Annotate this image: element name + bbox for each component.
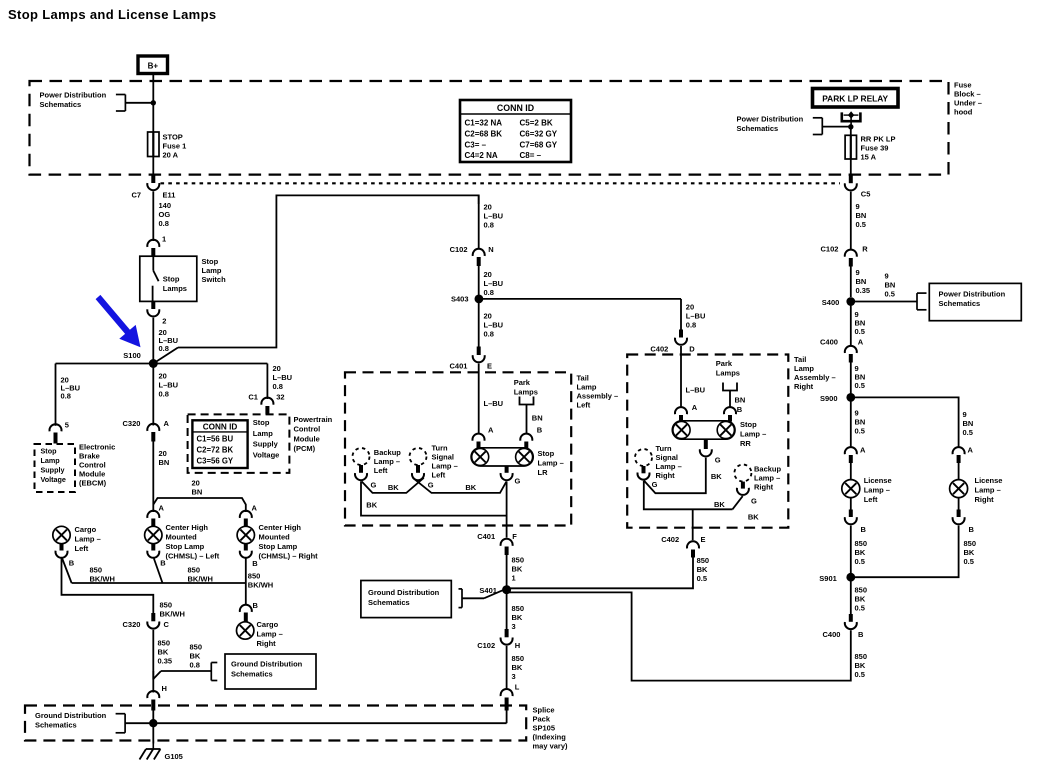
stop RR pin G terminal — [704, 440, 708, 449]
svg-text:850: 850 — [190, 643, 203, 652]
svg-text:Schematics: Schematics — [737, 124, 779, 133]
svg-text:0.5: 0.5 — [964, 557, 974, 566]
svg-text:Left: Left — [75, 544, 89, 553]
svg-text:Pack: Pack — [533, 715, 551, 724]
wire C320C down — [152, 630, 154, 680]
connector C102 pin H — [501, 638, 513, 645]
svg-text:BK: BK — [964, 548, 975, 557]
wire S100 to PCM branch — [153, 363, 267, 365]
svg-text:B: B — [737, 405, 743, 414]
connector pin A into stop RR — [675, 407, 687, 414]
wire E11 140 OG — [152, 191, 154, 241]
wire turn right ground bus — [644, 481, 733, 510]
lamp stop RR (dual filament) — [672, 421, 735, 439]
svg-text:Module: Module — [79, 470, 105, 479]
svg-text:BK: BK — [855, 548, 866, 557]
svg-text:0.8: 0.8 — [159, 219, 169, 228]
wire into splice pack — [152, 710, 154, 744]
wire fuse to C7 — [152, 157, 154, 176]
svg-text:9: 9 — [885, 272, 889, 281]
lamp backup left (dashed) — [353, 448, 370, 465]
svg-text:Fuse: Fuse — [954, 81, 972, 90]
svg-text:L–BU: L–BU — [686, 312, 706, 321]
node S901 splice — [846, 573, 855, 582]
svg-text:0.5: 0.5 — [855, 557, 865, 566]
svg-text:Fuse 39: Fuse 39 — [861, 144, 889, 153]
svg-text:B: B — [969, 525, 975, 534]
svg-text:850: 850 — [512, 654, 525, 663]
svg-text:0.8: 0.8 — [159, 390, 169, 399]
splice pack SP105 dashed box — [25, 706, 526, 741]
svg-text:Schematics: Schematics — [35, 721, 77, 730]
wire S900 to license right branch — [851, 397, 959, 447]
wire splice bus riser — [506, 710, 508, 723]
wire fuse 39 to C5 — [850, 159, 852, 176]
connector into CHMSL left — [147, 511, 159, 518]
svg-text:0.5: 0.5 — [963, 428, 973, 437]
backup right pin G terminal — [741, 482, 745, 489]
wire S403 branch to C402 D — [680, 299, 682, 330]
svg-text:Backup: Backup — [754, 465, 782, 474]
svg-text:0.8: 0.8 — [484, 221, 494, 230]
CHMSL right pin B terminal — [244, 544, 248, 551]
svg-text:BK: BK — [855, 661, 866, 670]
svg-text:Lamp –: Lamp – — [538, 459, 564, 468]
PCM CONN ID table — [192, 420, 247, 468]
svg-text:S403: S403 — [451, 294, 469, 303]
connector C102 pin H terminal — [505, 629, 509, 637]
wire S100 to EBCM branch (left) — [56, 363, 154, 365]
svg-text:RR PK LP: RR PK LP — [861, 135, 896, 144]
wire C400A to S900 — [850, 363, 852, 398]
svg-text:Powertrain: Powertrain — [294, 415, 333, 424]
svg-text:(CHMSL) – Right: (CHMSL) – Right — [259, 552, 319, 561]
connector splice pin L — [501, 689, 513, 696]
svg-text:Assembly –: Assembly – — [577, 392, 619, 401]
svg-text:1: 1 — [512, 574, 516, 583]
stop lamp switch box — [140, 256, 197, 301]
svg-text:Tail: Tail — [577, 374, 589, 383]
svg-text:BK: BK — [855, 595, 866, 604]
in-line harness dotted boundary — [161, 182, 841, 184]
svg-text:0.8: 0.8 — [686, 321, 696, 330]
svg-text:850: 850 — [158, 639, 171, 648]
tail lamp assembly left dashed box — [345, 372, 571, 525]
svg-text:9: 9 — [856, 268, 860, 277]
svg-text:Supply: Supply — [253, 440, 279, 449]
svg-text:BK/WH: BK/WH — [188, 575, 213, 584]
svg-text:0.5: 0.5 — [885, 290, 895, 299]
svg-text:Stop Lamp: Stop Lamp — [166, 542, 205, 551]
svg-text:A: A — [252, 504, 258, 513]
svg-text:0.8: 0.8 — [61, 392, 71, 401]
wire cargo-left to C320 C — [62, 559, 154, 614]
svg-text:L–BU: L–BU — [273, 373, 293, 382]
bracket to power distribution (top left) — [116, 95, 126, 112]
svg-text:C5=2 BK: C5=2 BK — [520, 119, 553, 128]
stop LR pin G terminal — [505, 466, 509, 473]
svg-text:A: A — [164, 419, 170, 428]
svg-text:15 A: 15 A — [861, 153, 877, 162]
svg-text:E: E — [701, 535, 706, 544]
svg-text:BN: BN — [856, 211, 867, 220]
battery B+ terminal — [138, 56, 168, 74]
svg-text:C400: C400 — [823, 630, 841, 639]
svg-text:BK: BK — [748, 513, 759, 522]
svg-text:BK: BK — [697, 565, 708, 574]
svg-text:C102: C102 — [450, 245, 468, 254]
wire stop RR G to turn right — [644, 458, 706, 494]
svg-text:850: 850 — [964, 539, 977, 548]
svg-text:850: 850 — [160, 601, 173, 610]
svg-text:0.8: 0.8 — [484, 288, 494, 297]
svg-text:0.35: 0.35 — [158, 657, 173, 666]
PCM dashed box — [188, 414, 290, 473]
svg-text:License: License — [975, 476, 1003, 485]
svg-text:Electronic: Electronic — [79, 443, 115, 452]
wire S403 to tail right branch — [479, 298, 681, 300]
svg-text:Right: Right — [794, 382, 814, 391]
svg-text:C400: C400 — [820, 338, 838, 347]
svg-text:BN: BN — [735, 396, 746, 405]
svg-text:9: 9 — [856, 202, 860, 211]
svg-text:G: G — [515, 477, 521, 486]
svg-text:C1: C1 — [248, 392, 258, 401]
wire backup right diagonal — [733, 496, 743, 509]
svg-text:N: N — [488, 245, 493, 254]
svg-text:850: 850 — [188, 566, 201, 575]
backup left pin G terminal — [359, 465, 363, 473]
wire park lamps to pin B (left) — [526, 405, 528, 434]
wire C401E into stop lamp LR — [478, 364, 480, 434]
svg-text:Lamp –: Lamp – — [975, 486, 1001, 495]
svg-text:Right: Right — [257, 639, 277, 648]
svg-text:STOP: STOP — [163, 133, 183, 142]
svg-text:2: 2 — [162, 317, 166, 326]
svg-text:CONN ID: CONN ID — [497, 103, 534, 113]
svg-text:BK/WH: BK/WH — [90, 575, 115, 584]
svg-text:G: G — [428, 481, 434, 490]
svg-text:G: G — [751, 497, 757, 506]
wire splice bus — [125, 722, 507, 724]
svg-text:A: A — [968, 446, 974, 455]
svg-text:C2=68 BK: C2=68 BK — [465, 130, 503, 139]
svg-text:L–BU: L–BU — [686, 386, 706, 395]
svg-text:BN: BN — [192, 488, 203, 497]
svg-text:C401: C401 — [477, 532, 495, 541]
svg-text:0.5: 0.5 — [855, 327, 865, 336]
svg-text:CONN ID: CONN ID — [203, 422, 238, 431]
connector pin B into stop RR — [724, 407, 736, 414]
svg-text:BK/WH: BK/WH — [248, 581, 273, 590]
node S401 splice — [502, 585, 511, 594]
svg-text:B+: B+ — [148, 62, 159, 71]
svg-text:20: 20 — [484, 203, 492, 212]
svg-text:850: 850 — [90, 566, 103, 575]
svg-text:C102: C102 — [477, 641, 495, 650]
wire S901 to C400 B — [850, 577, 852, 614]
connector pin 5 into EBCM — [50, 424, 62, 431]
svg-text:D: D — [689, 345, 695, 354]
PARK LP RELAY box — [813, 89, 899, 108]
svg-text:Right: Right — [656, 471, 676, 480]
connector C400 pin A — [845, 346, 857, 353]
wire S401 down to C102 H — [506, 590, 508, 630]
svg-text:BK: BK — [711, 472, 722, 481]
node S100 splice — [149, 359, 158, 368]
wire relay to RR PK LP fuse — [850, 127, 852, 136]
connector pin B into stop LR — [520, 434, 532, 441]
license left pin B terminal — [850, 498, 852, 510]
wire turn-left G to stop G — [413, 478, 507, 493]
svg-text:32: 32 — [276, 392, 284, 401]
svg-text:Ground Distribution: Ground Distribution — [35, 711, 107, 720]
svg-text:PARK LP RELAY: PARK LP RELAY — [822, 94, 888, 104]
node S400 splice — [846, 297, 855, 306]
svg-text:BN: BN — [885, 281, 896, 290]
wire to splice pack pin H — [152, 671, 154, 693]
connector into CHMSL right — [240, 511, 252, 518]
svg-text:B: B — [253, 601, 259, 610]
wire C401F to S401 — [506, 555, 508, 586]
svg-text:B: B — [858, 630, 864, 639]
svg-text:R: R — [862, 245, 868, 254]
svg-text:Mounted: Mounted — [259, 533, 291, 542]
svg-text:A: A — [858, 338, 864, 347]
svg-text:BN: BN — [856, 277, 867, 286]
lamp turn signal right (dashed) — [635, 449, 652, 466]
svg-text:Stop: Stop — [202, 257, 219, 266]
svg-text:Lamps: Lamps — [163, 284, 187, 293]
svg-text:140: 140 — [159, 201, 172, 210]
svg-text:C320: C320 — [123, 620, 141, 629]
svg-text:850: 850 — [512, 556, 525, 565]
svg-text:BK: BK — [366, 501, 377, 510]
svg-text:Ground Distribution: Ground Distribution — [231, 660, 303, 669]
svg-text:OG: OG — [159, 210, 171, 219]
lamp cargo right — [237, 622, 254, 639]
connector C5 terminal pin — [849, 175, 853, 183]
svg-text:Park: Park — [716, 359, 733, 368]
connector C1 pin 32 into PCM — [261, 398, 273, 405]
svg-text:C402: C402 — [661, 535, 679, 544]
svg-text:9: 9 — [963, 410, 967, 419]
svg-text:0.5: 0.5 — [855, 670, 865, 679]
svg-text:L–BU: L–BU — [484, 399, 504, 408]
tail lamp assembly right dashed box — [627, 355, 788, 528]
connector into license left — [845, 447, 857, 454]
svg-text:Switch: Switch — [202, 275, 227, 284]
svg-text:Schematics: Schematics — [939, 299, 981, 308]
svg-text:A: A — [488, 426, 494, 435]
svg-text:L–BU: L–BU — [484, 212, 504, 221]
svg-text:S100: S100 — [123, 351, 141, 360]
svg-text:B: B — [252, 559, 258, 568]
wire backup-left G to bus — [362, 478, 424, 493]
svg-text:0.5: 0.5 — [856, 220, 866, 229]
svg-text:Stop: Stop — [740, 420, 757, 429]
svg-text:Voltage: Voltage — [253, 450, 280, 459]
svg-text:9: 9 — [855, 409, 859, 418]
svg-text:Signal: Signal — [656, 453, 679, 462]
wire branch to ground distribution note — [153, 671, 161, 679]
lamp turn signal left (dashed) — [410, 448, 427, 465]
bracket to S401 note — [459, 589, 463, 608]
lamp cargo left — [53, 526, 70, 543]
svg-text:C401: C401 — [450, 362, 468, 371]
svg-text:C7=68 GY: C7=68 GY — [520, 141, 558, 150]
svg-text:C: C — [164, 620, 170, 629]
fuse block underhood dashed box — [30, 81, 949, 175]
svg-text:Lamp –: Lamp – — [432, 462, 458, 471]
svg-text:Lamps: Lamps — [716, 369, 740, 378]
svg-text:Stop: Stop — [163, 275, 180, 284]
svg-text:0.5: 0.5 — [697, 574, 707, 583]
svg-text:Schematics: Schematics — [231, 670, 273, 679]
svg-text:20: 20 — [159, 449, 167, 458]
connector C400 pin B terminal — [849, 614, 853, 622]
wire B+ to STOP fuse — [152, 74, 154, 133]
svg-text:Stop: Stop — [538, 449, 555, 458]
svg-text:C3=56 GY: C3=56 GY — [197, 456, 234, 465]
wire CHMSL-left diagonal to bus — [154, 559, 163, 584]
svg-text:C5: C5 — [861, 190, 871, 199]
svg-text:0.8: 0.8 — [484, 330, 494, 339]
wire corridor to C102 N — [478, 195, 480, 248]
svg-text:Lamp: Lamp — [253, 429, 273, 438]
connector C401 pin F — [501, 539, 513, 546]
park lamps feed stub (right) — [723, 383, 737, 391]
connector C5 — [845, 183, 857, 190]
connector into cargo right — [240, 605, 252, 612]
svg-text:C4=2 NA: C4=2 NA — [465, 151, 498, 160]
bracket to ground distribution box — [211, 663, 217, 681]
cargo left pin B terminal — [60, 544, 64, 551]
svg-text:RR: RR — [740, 439, 751, 448]
svg-text:Block –: Block – — [954, 90, 981, 99]
svg-text:Lamp: Lamp — [577, 383, 597, 392]
connector C402 pin D terminal — [679, 330, 683, 338]
relay output terminal symbol — [842, 111, 861, 127]
EBCM stop lamp supply voltage box — [35, 444, 76, 492]
bracket to ground distribution (bottom) — [116, 714, 126, 733]
stop lamp switch contact — [152, 256, 154, 270]
wire C320 to CHMSL junction — [152, 442, 154, 513]
svg-text:E: E — [487, 362, 492, 371]
svg-text:C320: C320 — [123, 419, 141, 428]
svg-text:Lamps: Lamps — [514, 388, 538, 397]
connector splice pin H — [147, 691, 159, 698]
svg-text:L: L — [515, 683, 520, 692]
svg-text:0.35: 0.35 — [856, 286, 871, 295]
svg-text:C1=32 NA: C1=32 NA — [465, 119, 503, 128]
svg-text:G: G — [715, 456, 721, 465]
svg-text:Ground Distribution: Ground Distribution — [368, 588, 440, 597]
svg-text:S900: S900 — [820, 394, 838, 403]
connector C7/E11 — [147, 183, 159, 190]
svg-text:0.5: 0.5 — [855, 604, 865, 613]
svg-text:B: B — [69, 559, 75, 568]
svg-text:Right: Right — [754, 483, 774, 492]
svg-text:Stop: Stop — [253, 418, 270, 427]
switch pin 2 terminal — [151, 301, 155, 309]
wire stop G down to C401 F — [506, 481, 508, 537]
svg-text:850: 850 — [855, 586, 868, 595]
svg-text:C102: C102 — [821, 245, 839, 254]
wire S900 to license left — [850, 397, 852, 447]
fuse STOP Fuse 1 — [148, 132, 159, 157]
wire C402D into stop lamp RR — [680, 346, 682, 407]
CONN ID table (underhood) — [460, 100, 571, 162]
svg-text:may vary): may vary) — [533, 742, 569, 751]
connector pin 2 — [147, 309, 159, 316]
turn right pin G terminal — [642, 466, 646, 473]
svg-text:BN: BN — [963, 419, 974, 428]
svg-text:Left: Left — [864, 495, 878, 504]
svg-text:C402: C402 — [650, 345, 668, 354]
wire C102N to S403 — [478, 266, 480, 299]
svg-text:20: 20 — [686, 303, 694, 312]
svg-text:BN: BN — [159, 458, 170, 467]
svg-text:Lamp –: Lamp – — [864, 486, 890, 495]
svg-text:Left: Left — [432, 471, 446, 480]
svg-text:Schematics: Schematics — [368, 598, 410, 607]
wire C400B return to S401 — [507, 592, 851, 680]
wire bracket stem to junction — [125, 102, 153, 104]
svg-text:Stop Lamps and License Lamps: Stop Lamps and License Lamps — [8, 7, 216, 22]
wire ground exit to C402 E — [692, 509, 694, 540]
wire bracket stem to relay junction — [822, 126, 851, 128]
svg-text:20: 20 — [192, 479, 200, 488]
svg-text:Lamp –: Lamp – — [740, 430, 766, 439]
svg-text:A: A — [860, 446, 866, 455]
connector into license right — [953, 447, 965, 454]
wire license left to S901 — [850, 526, 852, 578]
svg-text:BK: BK — [714, 500, 725, 509]
wire CHMSL-right down to cargo right — [245, 559, 247, 606]
connector C402 pin E — [687, 541, 699, 548]
svg-text:C8= –: C8= – — [520, 151, 542, 160]
svg-text:C7: C7 — [132, 191, 142, 200]
svg-text:Voltage: Voltage — [41, 475, 66, 484]
svg-text:850: 850 — [697, 556, 710, 565]
svg-text:BK: BK — [465, 483, 476, 492]
ground distribution schematics box (S401) — [361, 581, 451, 618]
svg-text:1: 1 — [162, 235, 166, 244]
svg-text:Park: Park — [514, 378, 531, 387]
license right pin B terminal — [958, 498, 960, 510]
svg-text:20 A: 20 A — [163, 151, 179, 160]
connector C102 pin R — [845, 250, 857, 257]
svg-text:L–BU: L–BU — [484, 321, 504, 330]
svg-text:Brake: Brake — [79, 452, 100, 461]
connector C320 pin A — [147, 424, 159, 431]
svg-text:B: B — [537, 426, 543, 435]
connector C400 pin B — [845, 622, 857, 629]
power distribution schematics box (S400) — [929, 283, 1021, 320]
connector C401 pin E — [473, 355, 485, 362]
svg-text:Power Distribution: Power Distribution — [40, 91, 107, 100]
lamp CHMSL left — [145, 526, 162, 543]
svg-text:Power Distribution: Power Distribution — [939, 290, 1006, 299]
svg-text:BN: BN — [532, 414, 543, 423]
ground distribution schematics box (center) — [225, 654, 316, 689]
svg-text:H: H — [162, 684, 167, 693]
svg-text:BK: BK — [388, 483, 399, 492]
svg-text:E11: E11 — [163, 191, 176, 200]
svg-text:Right: Right — [975, 495, 995, 504]
wire S403 down to C401 E — [478, 299, 480, 347]
